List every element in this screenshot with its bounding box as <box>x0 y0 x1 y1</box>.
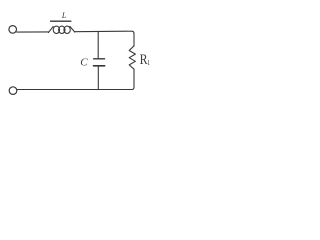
wire: bottom rail <box>17 89 132 91</box>
svg-text:C: C <box>80 57 88 69</box>
input terminal (top) <box>9 26 17 34</box>
wire: inductor to right corner <box>75 31 134 33</box>
capacitor C top plate <box>94 58 105 60</box>
svg-text:R1: R1 <box>140 51 151 67</box>
inductor core bar <box>51 20 71 22</box>
wire: capacitor to bottom rail <box>97 67 99 90</box>
input terminal (bottom) <box>9 87 17 95</box>
wire: right branch down to resistor <box>133 33 135 46</box>
resistor R1 zigzag <box>129 46 135 69</box>
capacitor C bottom plate <box>94 65 105 67</box>
wire: resistor to bottom rail <box>132 69 134 89</box>
wire: top terminal to inductor <box>17 31 49 33</box>
inductor L1 coil <box>48 26 74 33</box>
wire: junction node down to capacitor <box>97 32 99 59</box>
svg-text:L: L <box>61 11 67 20</box>
